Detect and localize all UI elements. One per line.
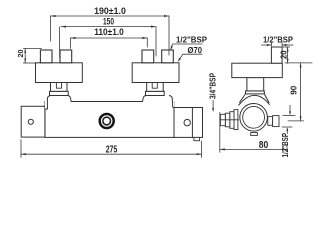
right union escutcheon (132, 63, 179, 83)
right end block split line (191, 108, 193, 138)
svg-text:1/2"BSP: 1/2"BSP (281, 132, 290, 157)
right end port circle (184, 119, 190, 125)
side right outlet rect E (268, 117, 273, 126)
svg-text:150: 150 (103, 17, 114, 27)
dim 110 line (71, 38, 148, 48)
side view neck ring1 (247, 78, 264, 91)
side bottom nub (251, 133, 258, 136)
dim 190 line (51, 16, 170, 55)
left union escutcheon (36, 63, 83, 83)
label 3/4 BSP leader (212, 101, 214, 111)
side view cone sides (240, 94, 269, 102)
svg-text:Ø70: Ø70 (188, 45, 203, 55)
side view escutcheon (232, 63, 282, 77)
svg-text:275: 275 (106, 145, 118, 156)
dim 80 (220, 113, 287, 153)
svg-text:20: 20 (16, 50, 25, 58)
dim 150 arrows (61, 26, 66, 28)
side view inlet pipe (271, 47, 282, 63)
side view dome arc (239, 95, 269, 105)
dim 110 arrows (71, 37, 76, 39)
dim pipe width side (261, 43, 293, 46)
right union ring2 (146, 91, 165, 95)
svg-text:20: 20 (280, 50, 289, 59)
left union ring2 (50, 91, 69, 95)
svg-text:3/4"BSP: 3/4"BSP (209, 72, 218, 99)
left union flare outline (45, 96, 71, 109)
svg-text:1/2"BSP: 1/2"BSP (263, 35, 293, 45)
svg-text:1/2"BSP: 1/2"BSP (176, 34, 207, 44)
right union ring1 notch (152, 83, 157, 89)
dim 190 arrows (51, 15, 56, 17)
bottom nub right (194, 137, 200, 140)
dim 20 side (283, 47, 290, 63)
dim 150 line (60, 27, 156, 58)
label 1/2 BSP front leader (171, 44, 202, 49)
svg-text:90: 90 (289, 85, 299, 94)
svg-text:110±1.0: 110±1.0 (94, 27, 124, 37)
outlet callout ext lines (282, 105, 295, 133)
dim 20 front arrows (24, 48, 26, 53)
side left fitting rect A (220, 114, 225, 125)
dim 275 arrows (21, 153, 26, 155)
side right outlet rect F (273, 116, 279, 127)
svg-text:80: 80 (259, 140, 269, 151)
side view neck ring2 (246, 91, 265, 94)
right union nut1 (142, 50, 154, 63)
side left fitting rect C (230, 112, 234, 129)
left union ring1 notch (56, 83, 61, 89)
right end block (174, 108, 203, 138)
dim 275 line (21, 140, 202, 157)
dim 90 (285, 63, 312, 121)
right union flare outline (143, 96, 174, 108)
left union nut2 (60, 50, 72, 63)
left union flare fill (45, 96, 72, 109)
wall bracket left (21, 106, 45, 137)
center knob rings (100, 114, 114, 128)
side view big circle (240, 104, 268, 132)
side left fitting rect D (234, 110, 238, 130)
svg-text:190±1.0: 190±1.0 (94, 6, 126, 16)
side left fitting rect B (225, 113, 230, 127)
left union nut1 (40, 50, 52, 63)
bracket hole (28, 119, 33, 124)
left union ring1 (51, 83, 68, 92)
side view inner circle (243, 106, 265, 128)
bar body front view (45, 102, 174, 138)
side left fitting midline (220, 119, 238, 121)
right union flare fill (142, 96, 175, 107)
dim 20 front ext lines (24, 48, 42, 63)
label dia 70 leader (179, 54, 202, 60)
right union ring1 (147, 83, 164, 92)
right union nut2 (162, 50, 174, 63)
